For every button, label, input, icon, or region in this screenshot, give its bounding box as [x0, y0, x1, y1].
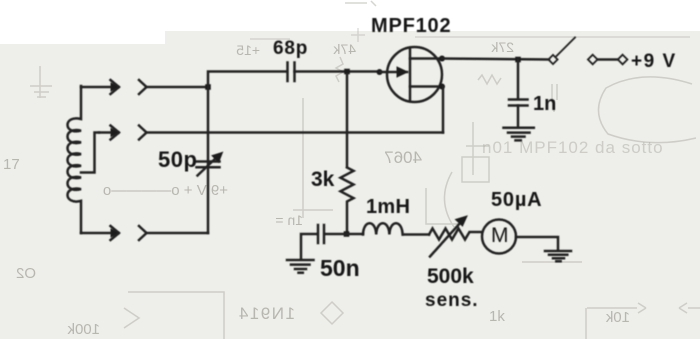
wire meter to ground	[516, 237, 558, 251]
svg-text:10k: 10k	[605, 309, 630, 326]
jack row 2	[139, 126, 147, 140]
wire jack3 to bus bottom	[147, 232, 209, 235]
svg-text:sens.: sens.	[425, 290, 479, 311]
svg-text:1n: 1n	[533, 93, 556, 115]
svg-text:n01 MPF102 da sotto: n01 MPF102 da sotto	[482, 138, 664, 157]
ground (50n)	[287, 260, 314, 273]
wire jack1 to bus	[147, 86, 209, 89]
connector diamond pair to battery	[588, 55, 598, 65]
C1 variable arrow	[198, 157, 218, 176]
svg-text:1mH: 1mH	[366, 196, 410, 218]
svg-text:MPF102: MPF102	[371, 15, 451, 37]
svg-text:4067: 4067	[384, 148, 422, 167]
plug arrow row 1	[81, 80, 119, 94]
svg-text:1N914: 1N914	[237, 304, 295, 323]
node: tank top junction dot	[205, 84, 211, 90]
svg-text:17: 17	[3, 156, 20, 173]
coil L1 (plug-in tank coil)	[68, 86, 82, 233]
capacitor C1 50p variable: plates	[197, 162, 220, 168]
meter M1 50uA	[482, 220, 516, 254]
jack row 1	[139, 80, 147, 94]
svg-text:+9 V: +9 V	[631, 51, 677, 72]
source return wire	[442, 87, 445, 133]
svg-text:M: M	[491, 224, 509, 247]
main schematic	[68, 15, 677, 311]
node: gate at JFET edge dot	[377, 69, 383, 75]
capacitor C2 68p: plates	[288, 63, 295, 82]
ground (1n)	[504, 128, 534, 141]
svg-text:1n =: 1n =	[275, 212, 303, 228]
node: drain dot	[439, 56, 445, 62]
svg-text:O2: O2	[16, 265, 36, 282]
svg-text:500k: 500k	[427, 265, 474, 288]
inductor L2 1mH	[346, 233, 363, 236]
gate leak line	[346, 74, 349, 167]
wire 68p to gate junction	[295, 70, 381, 73]
node: detector node dot	[344, 231, 350, 237]
node: source dot	[439, 84, 445, 90]
svg-text:27k: 27k	[490, 39, 514, 55]
capacitor C4 50n	[325, 233, 346, 236]
svg-text:50n: 50n	[320, 255, 360, 281]
svg-text:100k: 100k	[67, 321, 100, 338]
coil tap wire	[81, 133, 99, 173]
resistor R1 3k	[341, 168, 354, 235]
transistor U1 MPF102 (N-JFET)	[387, 47, 442, 102]
svg-text:+15: +15	[236, 42, 260, 58]
svg-text:50p: 50p	[158, 147, 197, 172]
svg-text:3k: 3k	[311, 168, 335, 191]
svg-text:50µA: 50µA	[491, 189, 542, 211]
capacitor C3 1n	[517, 60, 520, 99]
rheostat R2 500k	[429, 229, 482, 240]
svg-text:47k: 47k	[332, 41, 356, 57]
switch S1	[548, 55, 557, 64]
plug arrow row 3	[81, 226, 119, 240]
node: 1n junction dot	[515, 57, 521, 63]
svg-text:1k: 1k	[489, 308, 505, 325]
wire jack2 to source (crosses bus and gate line)	[147, 131, 444, 134]
drain supply wire	[442, 59, 549, 60]
jack row 3	[139, 226, 147, 240]
tank bus wire	[208, 72, 287, 234]
ground (meter)	[545, 251, 571, 261]
svg-text:68p: 68p	[273, 38, 308, 59]
node: gate junction dot	[344, 69, 350, 75]
plug arrow row 2	[99, 126, 119, 140]
